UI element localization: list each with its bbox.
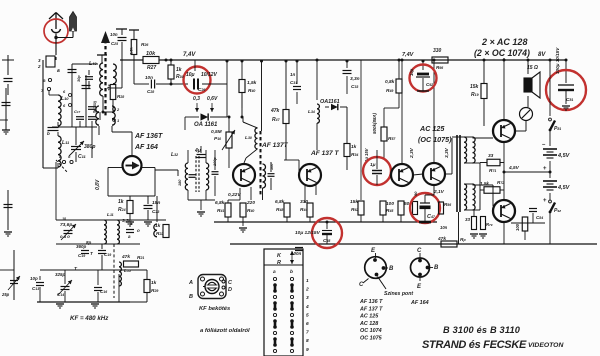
svg-text:R79: R79: [486, 222, 493, 227]
svg-text:500k(88Λ): 500k(88Λ): [372, 112, 377, 134]
svg-text:B: B: [189, 294, 193, 300]
svg-text:a: a: [57, 68, 60, 74]
svg-text:R28: R28: [117, 94, 124, 99]
svg-text:C25: C25: [111, 41, 118, 46]
svg-text:6,8k: 6,8k: [275, 199, 285, 205]
svg-text:a fóliázott oldalról: a fóliázott oldalról: [200, 328, 250, 334]
svg-text:5: 5: [306, 312, 309, 318]
svg-text:B: B: [389, 266, 394, 272]
svg-text:7,4V: 7,4V: [183, 52, 196, 58]
svg-text:4,5V: 4,5V: [508, 165, 520, 171]
svg-text:15k: 15k: [350, 199, 358, 205]
svg-text:100p: 100p: [213, 157, 217, 166]
svg-text:4μ: 4μ: [194, 148, 201, 154]
svg-text:OC 1074: OC 1074: [360, 328, 382, 334]
svg-text:10μ: 10μ: [409, 68, 414, 76]
svg-text:1μ: 1μ: [370, 162, 376, 168]
svg-text:180: 180: [178, 179, 182, 186]
svg-text:AF 137 T: AF 137 T: [359, 306, 383, 312]
svg-text:325p: 325p: [55, 272, 66, 277]
svg-text:C13: C13: [32, 286, 39, 291]
svg-text:3: 3: [306, 295, 309, 301]
svg-text:380p: 380p: [84, 144, 95, 150]
svg-text:(OC 1075): (OC 1075): [418, 135, 452, 144]
svg-text:b: b: [47, 131, 50, 136]
svg-text:10n: 10n: [145, 75, 153, 80]
svg-text:10k: 10k: [146, 51, 156, 57]
svg-text:25p: 25p: [1, 292, 10, 297]
svg-text:0,22V: 0,22V: [228, 192, 241, 198]
svg-text:1k: 1k: [118, 199, 124, 205]
svg-text:1,5k: 1,5k: [247, 80, 257, 86]
svg-text:100: 100: [270, 163, 274, 170]
svg-text:9: 9: [306, 347, 309, 353]
svg-text:R27: R27: [147, 65, 156, 71]
svg-text:73,6p: 73,6p: [60, 222, 72, 228]
svg-text:AF 137 T: AF 137 T: [310, 150, 339, 157]
svg-text:R56: R56: [444, 202, 451, 207]
svg-text:B 3100 és B 3110: B 3100 és B 3110: [443, 325, 521, 335]
svg-text:D: D: [228, 287, 232, 293]
svg-text:0,6V: 0,6V: [207, 96, 218, 102]
svg-text:1k: 1k: [155, 223, 161, 229]
svg-text:C31: C31: [290, 80, 297, 85]
svg-text:0,8V: 0,8V: [95, 179, 101, 190]
svg-text:(C750): (C750): [93, 100, 97, 112]
svg-text:1,5k: 1,5k: [480, 181, 489, 186]
svg-text:C14: C14: [57, 292, 64, 297]
svg-text:a: a: [273, 270, 276, 275]
svg-text:47k: 47k: [121, 254, 130, 260]
svg-text:KF = 480 kHz: KF = 480 kHz: [70, 315, 109, 322]
svg-text:1k: 1k: [176, 67, 182, 73]
svg-text:10n: 10n: [440, 225, 448, 230]
svg-text:R: R: [277, 260, 281, 266]
svg-text:3,3V: 3,3V: [444, 147, 450, 158]
svg-text:Szines pont: Szines pont: [384, 291, 413, 297]
svg-text:2,1V: 2,1V: [433, 189, 445, 195]
svg-text:6: 6: [306, 321, 309, 327]
svg-text:8V: 8V: [538, 52, 546, 58]
svg-text:AC 125: AC 125: [419, 124, 445, 133]
svg-text:1n: 1n: [290, 72, 296, 77]
svg-text:330: 330: [300, 199, 308, 205]
svg-text:15n: 15n: [152, 200, 160, 206]
svg-text:C84: C84: [536, 215, 543, 220]
svg-text:C: C: [417, 248, 422, 254]
svg-text:3,3n: 3,3n: [350, 76, 360, 82]
svg-text:R72: R72: [497, 180, 504, 185]
svg-text:KF bekötés: KF bekötés: [199, 306, 231, 312]
svg-text:7,4V: 7,4V: [402, 52, 415, 58]
svg-text:7: 7: [306, 330, 309, 336]
svg-text:1: 1: [306, 278, 309, 284]
svg-text:30p: 30p: [77, 75, 81, 82]
svg-text:47k: 47k: [270, 108, 280, 114]
svg-text:C19: C19: [78, 253, 85, 258]
svg-text:C28: C28: [147, 89, 154, 94]
svg-text:1k: 1k: [351, 144, 357, 150]
svg-text:b: b: [290, 269, 293, 275]
svg-text:6,8k: 6,8k: [215, 200, 225, 206]
svg-text:10/12V: 10/12V: [201, 72, 218, 78]
svg-text:C16: C16: [100, 289, 107, 294]
svg-text:33: 33: [465, 217, 471, 222]
svg-text:10p: 10p: [30, 276, 38, 281]
svg-text:360p: 360p: [76, 244, 87, 249]
svg-text:OA 1161: OA 1161: [194, 122, 218, 128]
svg-text:2: 2: [37, 64, 41, 69]
svg-text:+: +: [543, 166, 547, 172]
svg-text:15k: 15k: [107, 84, 112, 91]
svg-text:1k: 1k: [151, 280, 157, 286]
svg-text:15 Ω: 15 Ω: [527, 65, 538, 71]
svg-text:(2 × OC 1074): (2 × OC 1074): [474, 48, 530, 58]
svg-text:47k: 47k: [437, 236, 446, 242]
svg-text:A: A: [188, 280, 193, 286]
svg-text:2 × AC 128: 2 × AC 128: [481, 37, 527, 47]
svg-text:15k: 15k: [470, 84, 479, 90]
svg-text:0,5M: 0,5M: [211, 129, 223, 135]
svg-text:2: 2: [305, 287, 309, 293]
svg-text:10μ 12/15V: 10μ 12/15V: [295, 230, 321, 236]
svg-text:o a o: o a o: [60, 234, 70, 239]
svg-text:4,5V: 4,5V: [557, 185, 571, 191]
svg-text:1,5k: 1,5k: [129, 46, 134, 55]
svg-text:8: 8: [306, 338, 309, 344]
svg-text:OC 1075: OC 1075: [360, 336, 383, 342]
svg-text:0,8k: 0,8k: [385, 79, 395, 85]
svg-text:100μ 10/15V: 100μ 10/15V: [555, 47, 560, 74]
svg-text:o: o: [137, 228, 140, 233]
svg-text:VIDEOTON: VIDEOTON: [528, 342, 564, 349]
svg-text:2,3V: 2,3V: [409, 147, 415, 159]
svg-text:+: +: [543, 198, 547, 204]
svg-text:AF 164: AF 164: [134, 144, 158, 151]
svg-text:100: 100: [515, 223, 520, 231]
svg-text:C19: C19: [104, 252, 111, 257]
svg-text:4: 4: [305, 304, 309, 310]
svg-text:AF 136T: AF 136T: [134, 133, 163, 140]
svg-text:AF 164: AF 164: [410, 300, 429, 306]
svg-text:AC 128: AC 128: [359, 321, 378, 327]
svg-text:AF 137T: AF 137T: [261, 142, 289, 149]
svg-text:AC 125: AC 125: [359, 314, 379, 320]
svg-text:R66: R66: [436, 65, 443, 70]
svg-text:B: B: [434, 265, 439, 271]
svg-text:AF 136 T: AF 136 T: [359, 299, 383, 305]
svg-text:220: 220: [246, 200, 255, 206]
svg-text:33: 33: [488, 153, 494, 159]
svg-text:10μ: 10μ: [186, 72, 195, 78]
svg-text:0,3: 0,3: [193, 96, 200, 102]
svg-text:100: 100: [386, 201, 394, 207]
svg-text:330: 330: [433, 48, 442, 54]
svg-text:4,5V: 4,5V: [557, 153, 571, 159]
svg-text:10n: 10n: [110, 32, 118, 37]
svg-text:STRAND és FECSKE: STRAND és FECSKE: [422, 339, 527, 351]
svg-text:C62: C62: [426, 82, 433, 87]
svg-text:8p: 8p: [86, 240, 92, 245]
svg-text:C17: C17: [74, 109, 81, 114]
svg-text:90: 90: [413, 191, 418, 196]
svg-text:OA1161: OA1161: [320, 99, 340, 105]
svg-text:50: 50: [404, 201, 410, 207]
